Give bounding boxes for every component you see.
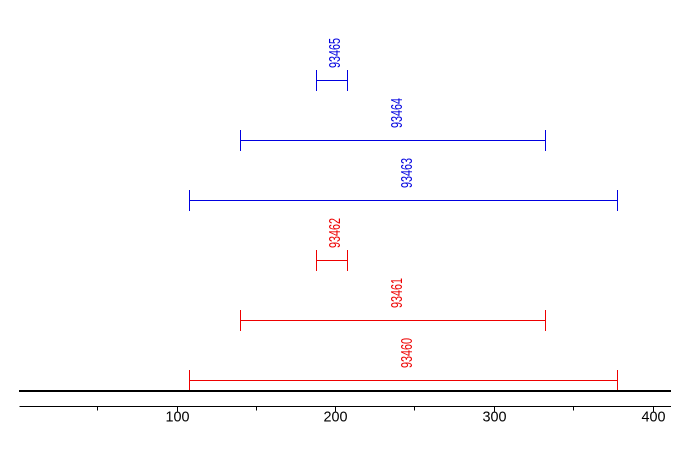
svg-text:93460: 93460 [399, 338, 416, 368]
minor tick 250 [414, 406, 416, 411]
label 93463 [399, 158, 416, 188]
label 93465 [327, 38, 344, 68]
label 93461 [389, 278, 406, 308]
interval bar 93460 (red, wide bottom) [189, 370, 618, 391]
interval bar 93461 (red, middle) [240, 310, 546, 331]
tick label 400 [642, 409, 666, 426]
x axis line [20, 406, 672, 408]
svg-text:300: 300 [483, 409, 507, 426]
svg-text:100: 100 [166, 409, 190, 426]
tick label 300 [483, 409, 507, 426]
svg-text:93461: 93461 [389, 278, 406, 308]
tick label 200 [324, 409, 348, 426]
svg-text:200: 200 [324, 409, 348, 426]
minor tick 50 [97, 406, 99, 411]
svg-text:93464: 93464 [389, 98, 406, 128]
interval bar 93463 (blue, wide) [189, 190, 618, 211]
label 93460 [399, 338, 416, 368]
major tick 400 [653, 406, 655, 412]
svg-text:400: 400 [642, 409, 666, 426]
major tick 200 [335, 406, 337, 412]
thick baseline [19, 390, 671, 392]
minor tick 150 [256, 406, 258, 411]
minor tick 350 [573, 406, 575, 411]
interval bar 93462 (red, small) [316, 250, 348, 271]
major tick 300 [494, 406, 496, 412]
label 93464 [389, 98, 406, 128]
label 93462 [327, 218, 344, 248]
major tick 100 [177, 406, 179, 412]
svg-text:93465: 93465 [327, 38, 344, 68]
svg-text:93462: 93462 [327, 218, 344, 248]
interval bar 93464 (blue, middle) [240, 130, 546, 151]
svg-text:93463: 93463 [399, 158, 416, 188]
interval bar 93465 (blue, top) [316, 70, 348, 91]
tick label 100 [166, 409, 190, 426]
